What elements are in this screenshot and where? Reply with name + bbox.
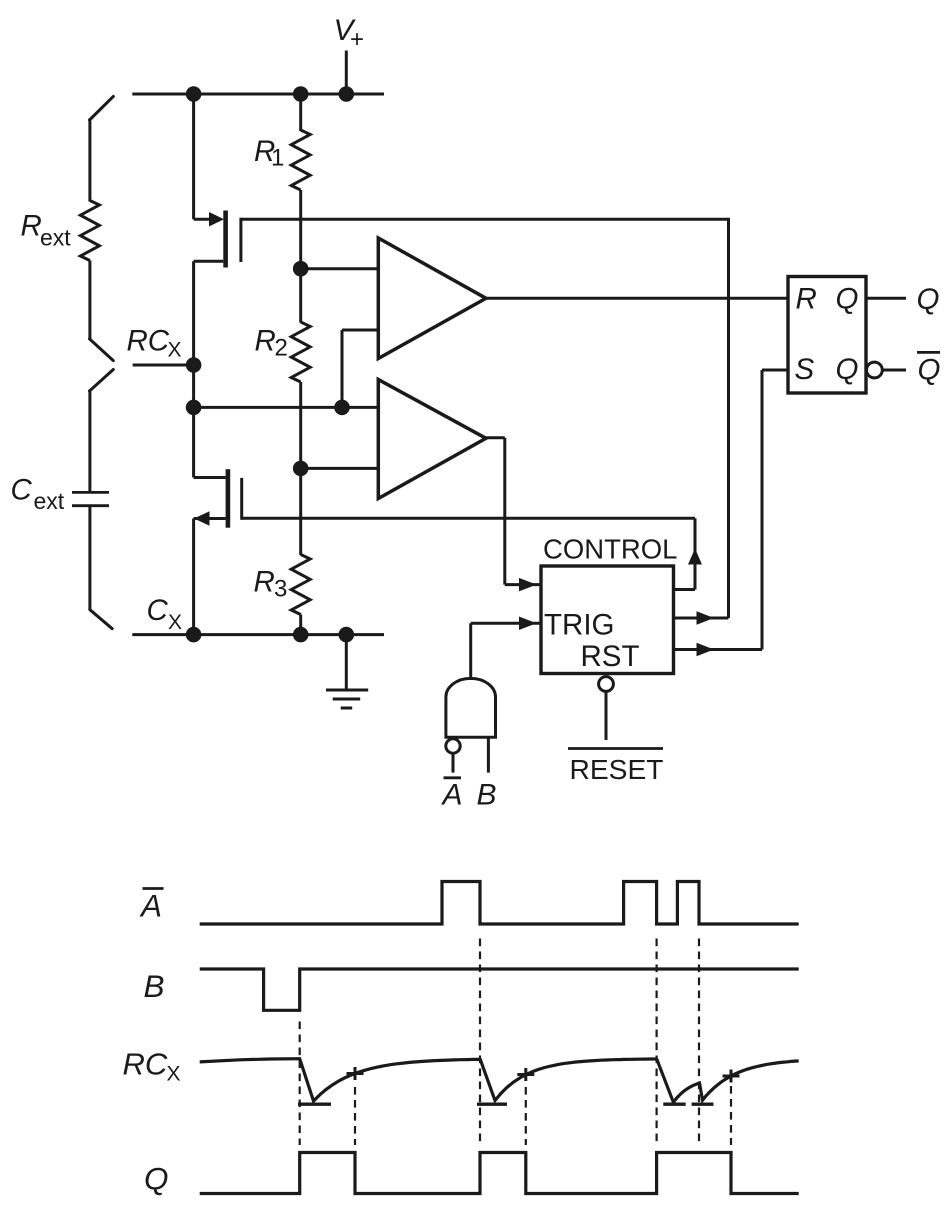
svg-text:+: + (350, 26, 364, 53)
svg-text:A: A (441, 778, 463, 811)
node Cx junction dot (186, 627, 202, 643)
wire ground stem (345, 635, 348, 690)
waveform Abar (200, 882, 799, 925)
wire Q output (866, 297, 906, 300)
dashed timing line 2 (354, 1087, 356, 1145)
node junction dot R2 R3 (293, 461, 309, 477)
ground (326, 689, 368, 692)
transistor Q2 source arrow (194, 511, 210, 526)
label Abar overline (143, 887, 164, 890)
svg-text:2: 2 (275, 334, 288, 361)
svg-text:A: A (139, 888, 162, 924)
svg-text:RC: RC (127, 325, 170, 358)
svg-text:Q: Q (918, 354, 941, 387)
svg-text:X: X (168, 339, 182, 362)
waveform B (200, 969, 799, 1010)
node junction dot top rail V+ (339, 86, 355, 102)
RCx threshold cross 3 (723, 1075, 740, 1078)
wire control out3 (674, 648, 763, 651)
dashed timing line 4 (525, 1087, 527, 1145)
wire Cext upper vertical (88, 390, 91, 493)
wire B input stub (487, 737, 490, 772)
svg-text:RC: RC (123, 1046, 168, 1081)
wire brace lower vertical (88, 261, 91, 341)
control RST bubble (599, 677, 614, 692)
svg-text:X: X (167, 1062, 181, 1085)
latch U3 (788, 277, 866, 394)
svg-text:C: C (11, 474, 33, 507)
svg-text:Q: Q (836, 353, 859, 386)
wire R2-R3 stub (299, 382, 302, 555)
wire bottom rail (132, 633, 384, 636)
AND gate G1 (446, 678, 496, 737)
wire comparator U2 output horizontal (486, 436, 505, 439)
transistor Q1 gate electrode (239, 218, 242, 262)
svg-text:S: S (795, 353, 815, 386)
dashed timing line 3 (479, 939, 481, 1146)
wire control out1 horizontal (674, 588, 696, 591)
wire S horizontal to latch (762, 369, 788, 372)
dashed timing line 7 (730, 1086, 732, 1145)
wire U2 output to control (505, 583, 540, 586)
wire comparator U2 output vertical (503, 438, 506, 585)
wire RESET stem (605, 691, 608, 740)
svg-text:R: R (21, 210, 42, 243)
svg-text:1: 1 (271, 145, 284, 172)
wire TRIG input horizontal (471, 622, 540, 625)
control out3 arrow (697, 643, 715, 657)
control out2 arrow (697, 611, 715, 625)
wire Qbar output (882, 369, 906, 372)
transistor Q2 gate electrode (240, 478, 243, 520)
wire control out1 vertical (694, 518, 697, 589)
wire comparator U2 minus input (301, 467, 379, 470)
wire brace mid diagonal upper (90, 339, 114, 361)
wire V+ stem (345, 51, 348, 95)
wire left vertical lower (192, 519, 195, 635)
svg-text:Q: Q (917, 283, 940, 316)
svg-text:3: 3 (274, 576, 287, 603)
svg-text:TRIG: TRIG (544, 609, 614, 642)
RCx threshold cross 1 (347, 1072, 364, 1075)
wire R1-R2 stub (299, 190, 302, 323)
control block (541, 566, 674, 674)
control out1 arrow up (688, 549, 702, 565)
node junction dot R1 R2 (293, 261, 309, 277)
wire Cext lower vertical (88, 506, 91, 611)
svg-text:RST: RST (581, 640, 640, 673)
wire brace bottom diagonal (90, 610, 112, 629)
svg-text:R: R (254, 566, 275, 599)
label RESET overline (568, 747, 663, 750)
resistor R2 (291, 322, 310, 382)
AND gate input bubble (446, 739, 460, 753)
dashed timing line 5 (655, 939, 657, 1146)
wire minus input branch vertical (341, 330, 344, 407)
transistor Q2 source wire (194, 517, 226, 520)
svg-text:RESET: RESET (570, 753, 664, 785)
dashed timing line 1 (299, 1022, 301, 1146)
wire Q1 gate feedback horizontal (241, 218, 729, 221)
latch Qbar bubble (867, 362, 883, 378)
label A-bar overline (444, 776, 462, 779)
resistor R1 (291, 130, 310, 190)
svg-text:X: X (168, 611, 182, 634)
wire brace mid diagonal lower (90, 370, 114, 392)
waveform RCx (200, 1059, 799, 1103)
wire R3 bottom stub (299, 615, 302, 635)
wire left vertical upper (192, 94, 195, 219)
svg-text:ext: ext (34, 488, 65, 514)
svg-text:Q: Q (144, 1160, 169, 1196)
dashed timing line 6 (698, 939, 700, 1146)
node junction dot minus branch (334, 400, 350, 416)
wire RCx stub (133, 364, 194, 367)
wire R1 top stub (299, 94, 302, 131)
transistor Q1 source wire (194, 260, 224, 263)
resistor R3 (291, 555, 310, 615)
svg-text:R: R (255, 325, 276, 358)
transistor Q2 channel bar (226, 469, 231, 528)
wire top supply rail (132, 93, 384, 96)
node junction dot top rail R1 (293, 86, 309, 102)
node junction dot comparator branch (186, 400, 202, 416)
op-amp U2 (378, 380, 486, 499)
control input arrow upper (519, 578, 537, 592)
wire A input stub (452, 753, 455, 772)
wire AND output stem (469, 623, 472, 680)
wire comparator U1 output (486, 297, 788, 300)
node RCx junction dot (186, 357, 202, 373)
svg-text:B: B (477, 778, 497, 811)
transistor Q1 drain arrow (209, 212, 224, 227)
wire left vertical middle (192, 261, 195, 477)
node junction dot bottom rail R3 (293, 627, 309, 643)
wire brace upper vertical (88, 119, 91, 202)
svg-text:B: B (144, 968, 165, 1004)
svg-text:C: C (147, 594, 169, 627)
RCx low bar 2 (477, 1102, 507, 1105)
RCx threshold cross 2 (517, 1073, 534, 1076)
svg-text:CONTROL: CONTROL (543, 534, 677, 565)
wire comparator U1 minus input (342, 329, 378, 332)
RCx low bar 3 (663, 1102, 685, 1105)
transistor Q1 drain wire (194, 218, 210, 221)
resistor Rext (80, 201, 99, 261)
waveform Q (200, 1153, 799, 1194)
transistor Q2 drain wire (194, 476, 226, 479)
label Qbar overline (917, 351, 940, 354)
svg-text:Q: Q (836, 282, 859, 315)
node junction dot top rail left (186, 86, 202, 102)
wire comparator branch horizontal (194, 406, 379, 409)
RCx low bar 4 (692, 1102, 714, 1105)
RCx low bar 1 (298, 1102, 331, 1105)
node junction dot bottom rail gnd (339, 627, 355, 643)
wire Q1 gate feedback vertical (727, 218, 730, 618)
wire brace upper diagonal (90, 96, 114, 120)
wire comparator U1 plus input (301, 267, 379, 270)
wire S vertical (761, 370, 764, 650)
op-amp U1 (378, 238, 486, 359)
wire control out2 (674, 617, 729, 620)
svg-text:R: R (796, 282, 817, 315)
control TRIG input arrow (519, 617, 537, 631)
svg-text:ext: ext (40, 225, 71, 251)
capacitor Cext (72, 491, 109, 494)
wire Q2 gate horizontal (242, 517, 695, 520)
transistor Q1 channel bar (223, 211, 228, 268)
